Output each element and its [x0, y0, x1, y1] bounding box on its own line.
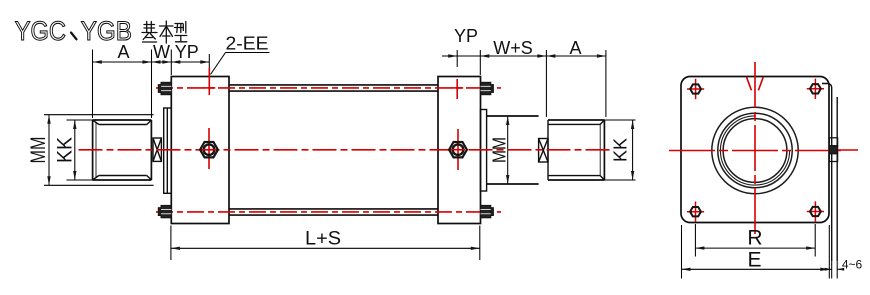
svg-text:KK: KK — [611, 138, 631, 162]
svg-text:YGC: YGC — [15, 16, 66, 46]
svg-text:KK: KK — [54, 137, 77, 163]
svg-text:A: A — [117, 42, 129, 62]
svg-text:MM: MM — [27, 137, 50, 164]
svg-text:MM: MM — [490, 137, 510, 163]
svg-text:A: A — [569, 38, 581, 58]
svg-text:4~6: 4~6 — [842, 257, 863, 271]
svg-text:E: E — [747, 249, 761, 272]
svg-text:R: R — [747, 227, 762, 250]
svg-text:W+S: W+S — [493, 38, 533, 58]
svg-text:YP: YP — [175, 42, 199, 62]
svg-text:2-EE: 2-EE — [226, 34, 269, 54]
svg-text:W: W — [153, 42, 170, 62]
svg-text:YP: YP — [454, 26, 478, 46]
svg-text:L+S: L+S — [305, 229, 341, 250]
